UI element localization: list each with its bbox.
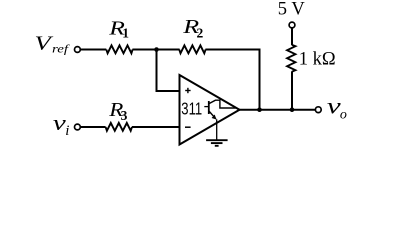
op-amp 311 triangle xyxy=(180,75,240,145)
wire pull-up to output xyxy=(291,71,293,109)
label R3 xyxy=(108,98,127,123)
label vi xyxy=(53,110,70,139)
svg-text:3: 3 xyxy=(121,108,128,123)
svg-text:o: o xyxy=(340,108,347,123)
terminal 5V xyxy=(289,22,295,28)
wire emitter to ground xyxy=(216,119,218,140)
transistor emitter with arrow xyxy=(209,111,216,119)
wire junction to R2 xyxy=(157,49,180,51)
terminal vo xyxy=(315,107,321,113)
svg-text:1: 1 xyxy=(122,26,129,41)
wire feedback vertical to output xyxy=(259,49,261,110)
node junction R1/R2/+input xyxy=(154,47,159,52)
node feedback/output junction xyxy=(257,107,262,112)
svg-text:ref: ref xyxy=(52,42,71,55)
transistor collector xyxy=(209,100,236,108)
wire Vref to R1 xyxy=(80,49,106,51)
svg-text:311: 311 xyxy=(181,100,202,119)
label R2 xyxy=(182,16,203,41)
svg-text:2: 2 xyxy=(197,25,204,40)
wire R3 to minus input xyxy=(132,126,180,128)
svg-text:1 kΩ: 1 kΩ xyxy=(299,50,336,70)
plus input marker xyxy=(185,88,190,93)
label R1 xyxy=(108,17,129,40)
transistor open-collector output: base stub xyxy=(204,106,209,108)
resistor R2 xyxy=(179,45,205,53)
wire vi to R3 xyxy=(80,126,105,128)
wire 5V to pull-up resistor xyxy=(291,28,293,45)
wire R2 to feedback corner xyxy=(205,49,260,51)
wire junction down to +input xyxy=(157,50,180,92)
node pull-up/output junction xyxy=(290,107,295,112)
resistor 1k pull-up xyxy=(287,45,295,72)
resistor R3 xyxy=(106,123,132,131)
resistor R1 xyxy=(106,45,132,53)
terminal Vref xyxy=(75,47,81,53)
minus input marker xyxy=(185,126,191,128)
ground xyxy=(206,140,228,146)
svg-text:5 V: 5 V xyxy=(278,0,306,20)
terminal vi xyxy=(75,124,81,130)
wire R1 to junction xyxy=(132,49,156,51)
wire output xyxy=(239,109,315,111)
transistor base bar xyxy=(208,101,210,114)
svg-text:i: i xyxy=(65,123,69,139)
label vo xyxy=(327,93,347,122)
label Vref xyxy=(35,33,71,55)
